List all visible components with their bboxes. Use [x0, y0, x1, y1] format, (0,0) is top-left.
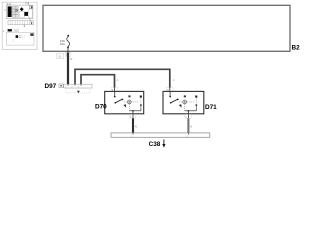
svg-text:1-6: 1-6: [7, 2, 12, 6]
connector code 30 box: [57, 53, 64, 58]
wire D71 to C38: [188, 114, 192, 133]
wire fuse to B2 edge: [67, 48, 69, 52]
pin 1 of B2: [65, 52, 70, 56]
svg-text:N: N: [135, 124, 137, 128]
wire B2 pin1 to D97 (thick feed): [68, 52, 73, 84]
svg-text:A: A: [173, 78, 175, 82]
wire D97 to D70 (lower run): [81, 75, 119, 92]
inset connector strip: [8, 21, 34, 25]
switch D71: [163, 91, 217, 113]
inset pointer arrow: [29, 18, 32, 25]
wire D70 to C38: [133, 114, 137, 133]
svg-text:D97: D97: [45, 83, 57, 90]
wire D97 to D71 (upper run): [75, 69, 175, 91]
inset locator box: [2, 2, 37, 49]
svg-text:10A: 10A: [60, 42, 65, 46]
svg-text:A: A: [117, 78, 119, 82]
svg-text:N: N: [190, 124, 192, 128]
svg-text:C38: C38: [149, 141, 161, 148]
pin 2 of D71: [167, 88, 173, 92]
ground bar C38: [111, 133, 210, 148]
pin 2 of D70: [112, 88, 118, 92]
svg-text:30: 30: [58, 55, 62, 59]
ground arrow at C38: [162, 139, 165, 147]
D71 internals: [169, 91, 197, 113]
svg-text:N15: N15: [14, 29, 19, 32]
svg-text:D71: D71: [205, 104, 217, 111]
inset tick arrow: [23, 25, 25, 27]
D70 internals: [114, 91, 142, 113]
connector D97: [45, 83, 93, 90]
fuse F16: [60, 35, 70, 48]
pin 1 of D71: [185, 114, 191, 119]
inset relay row: [7, 29, 19, 32]
switch D70: [95, 91, 144, 113]
fuse box B2: [43, 5, 300, 51]
inset fuse-box view A: [4, 2, 33, 19]
svg-text:B2: B2: [292, 44, 301, 51]
svg-text:D70: D70: [95, 104, 107, 111]
pin 1 of D70: [129, 114, 135, 119]
connector D97 counterpart: [66, 88, 90, 93]
svg-text:7-8: 7-8: [25, 2, 30, 6]
inset detail view C: [3, 29, 34, 45]
